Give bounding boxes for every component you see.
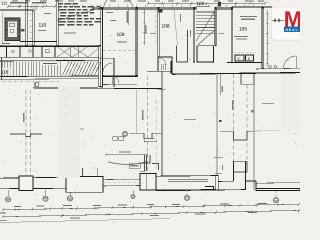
- dashed partition x156 top: [155, 10, 157, 45]
- wall vertical x137: [136, 8, 138, 76]
- left edge line: [1, 12, 3, 45]
- rail gray extension: [254, 130, 281, 132]
- corridor top y58: [99, 57, 114, 59]
- row fixtures: [12, 50, 15, 53]
- room 109 bottom wall: [103, 75, 137, 76]
- logo card: [272, 7, 306, 40]
- hanging lines above block: [82, 168, 84, 177]
- boxes left of landing: [176, 46, 178, 63]
- dashed line x233: [233, 74, 235, 161]
- stair right wall: [215, 8, 216, 46]
- rotated level text left: [23, 113, 24, 122]
- legend text block: [58, 3, 63, 5]
- tiny marks row y33: [150, 33, 156, 34]
- wall vertical x100 band end: [99, 46, 101, 87]
- band left edge line: [1, 58, 3, 80]
- column E: [186, 190, 188, 195]
- wall vertical x102: [101, 8, 103, 87]
- wall vertical x162: [161, 71, 163, 176]
- wall vertical x232: [231, 8, 233, 63]
- top strip text smudges: [12, 0, 18, 1]
- dim column x144: [143, 9, 145, 45]
- bottom wall lower line left: [0, 188, 19, 190]
- bay rect right: [234, 161, 246, 181]
- bottom step left piece: [205, 187, 246, 191]
- lower pocket right: [234, 161, 248, 172]
- ramp band top line: [0, 59, 99, 62]
- big room block: [66, 177, 103, 193]
- room 109 upper marks: [106, 12, 113, 13]
- dim column x267: [266, 10, 268, 66]
- wall horizontal y41.5: [20, 41, 57, 43]
- svg-text:111: 111: [1, 1, 8, 6]
- legend strike diagonal: [56, 7, 103, 21]
- bottom wall top line left: [0, 177, 66, 178]
- column F: [275, 191, 277, 197]
- door arc top corridor A: [104, 0, 117, 9]
- small circle symbol: [33, 6, 37, 10]
- dashed column line x156: [155, 100, 157, 188]
- WC door arc: [159, 58, 166, 65]
- stair left wall: [193, 8, 195, 62]
- dashed pair x26: [25, 90, 27, 176]
- WC fixture: [10, 23, 15, 27]
- left datum text: [0, 213, 6, 214]
- void X pattern: [57, 47, 99, 58]
- hatched wall block WC: [0, 18, 26, 41]
- top wall left segment: [0, 9, 33, 11]
- arc label box: [129, 164, 140, 168]
- bracket dim x144-156: [144, 140, 156, 142]
- verticals in void row: [69, 46, 71, 57]
- corridor wall x114: [113, 58, 115, 87]
- scan shade right: [282, 75, 300, 135]
- dimension line top-right: [148, 2, 265, 4]
- dock inner lines: [168, 178, 208, 180]
- dark mark x219: [218, 2, 221, 7]
- stair landing box: [197, 46, 214, 62]
- small rooms row verticals: [6, 47, 8, 58]
- bottom wall lower line mid: [33, 187, 66, 189]
- step wall right of dock: [218, 180, 233, 182]
- top strip tick row: [9, 5, 11, 7]
- dim text under 109: [117, 42, 127, 43]
- door arc room 109: [112, 76, 119, 83]
- small rooms row bottom wall: [0, 56, 99, 58]
- dimension text cluster top-left: [10, 2, 28, 3]
- dim line vertical x128.5: [128, 9, 130, 25]
- svg-text:110: 110: [39, 23, 47, 29]
- text above 105: [240, 16, 257, 17]
- dim stub x221: [220, 74, 222, 95]
- dim marks near 108: [180, 14, 181, 22]
- door arc right: [284, 56, 297, 69]
- small square on wall: [35, 83, 39, 87]
- rotated level text center: [142, 110, 143, 120]
- svg-text:102: 102: [197, 1, 205, 6]
- step shapes left of dock: [140, 155, 150, 171]
- right low wall double: [256, 189, 300, 191]
- rotated text x233: [232, 100, 233, 110]
- wall vertical x254 lower: [253, 84, 255, 190]
- window opening lines: [103, 178, 140, 181]
- dark box x158: [158, 9, 163, 13]
- corner bracket: [152, 164, 159, 171]
- wall y68.5 right: [256, 67, 300, 70]
- svg-text:108: 108: [162, 24, 170, 30]
- dimension numbers A: [14, 206, 21, 207]
- rail line center: [129, 133, 162, 139]
- label 116: [1, 68, 13, 76]
- kitchen dashed line: [233, 51, 256, 53]
- corridor door arc: [103, 63, 112, 72]
- dimension text 150: [245, 1, 254, 2]
- pier block x140: [140, 174, 156, 191]
- stair diagonal second: [198, 30, 215, 45]
- twin circles on wall: [269, 65, 272, 68]
- dock right pier: [215, 176, 218, 190]
- dashed line room 109: [103, 49, 135, 51]
- wall y71 left of WC: [147, 70, 158, 72]
- top wall right of stair: [215, 7, 232, 9]
- dark tick x220: [219, 120, 222, 122]
- pillar block: [19, 176, 33, 190]
- ramp band hatch: [1, 61, 3, 76]
- dimension tie into logo: [272, 19, 285, 21]
- stair treads: [196, 11, 215, 13]
- top wall far right: [232, 6, 272, 8]
- dock bottom line: [156, 189, 216, 192]
- dock top line: [156, 175, 216, 178]
- dashed column line x147.5: [147, 76, 149, 188]
- tick on x217: [214, 157, 223, 159]
- dashed line x247: [246, 84, 248, 172]
- gray mark: [251, 110, 254, 113]
- rail pocket right: [220, 131, 254, 140]
- svg-text:REAL: REAL: [286, 28, 299, 32]
- wall horizontal y45.8: [0, 45, 99, 46]
- dim tick column x30.5: [30, 13, 32, 15]
- pocket under wall right: [241, 74, 254, 84]
- wall vertical x172 WC right: [171, 57, 173, 74]
- column A: [7, 190, 9, 196]
- ramp band bottom line 1: [0, 75, 99, 78]
- wall y84.5 corridor: [103, 83, 137, 85]
- dimension line top-left: [8, 6, 55, 8]
- K box 2: [246, 55, 254, 61]
- small WC room: [158, 57, 172, 71]
- flat arc door: [108, 162, 146, 165]
- ramp small text: [42, 62, 59, 65]
- wall light x137 lower: [136, 90, 138, 133]
- wall after bay: [246, 180, 257, 182]
- band dim tick row: [2, 80, 4, 82]
- legend small text: [64, 33, 76, 34]
- wall vertical x26.5: [26, 0, 28, 46]
- scan speckle noise: [190, 5, 193, 8]
- wall vertical x263: [262, 8, 264, 69]
- svg-text:116: 116: [1, 70, 9, 75]
- dimension line C partial: [0, 219, 170, 223]
- thin diagonal partition: [174, 10, 178, 45]
- wall y87 long: [33, 87, 162, 90]
- vertical x245 step: [245, 181, 247, 190]
- level text +4.200 b: [262, 103, 274, 104]
- dim line 4250: [106, 154, 147, 156]
- wall vertical x217 lower: [216, 74, 218, 177]
- dimension line B: [3, 210, 299, 216]
- stair diagonal cut: [196, 12, 215, 41]
- wall y62.5 kitchen: [227, 62, 262, 64]
- ticks on bay: [247, 166, 248, 171]
- wall vertical x172 upper: [170, 61, 172, 74]
- door arc top corridor B: [122, 0, 133, 9]
- column B: [45, 190, 47, 196]
- column C: [69, 193, 71, 196]
- main wall y73.5 right half: [172, 73, 300, 75]
- column D small: [132, 191, 134, 195]
- WC fixture hatch: [160, 64, 162, 70]
- logo blue band: [284, 27, 301, 32]
- dimension numbers B: [70, 218, 80, 219]
- ramp band bottom line 2: [0, 78, 99, 81]
- wall vertical x158.5: [158, 8, 160, 57]
- column circle center: [122, 131, 127, 136]
- wall vertical x57.5 room 110 right: [57, 0, 59, 46]
- box labels small: [113, 137, 118, 141]
- dimension line A: [3, 204, 299, 210]
- dashed pair x30: [30, 90, 32, 176]
- right low wall thin: [256, 182, 300, 185]
- svg-text:105: 105: [239, 27, 247, 33]
- text below 105: [234, 36, 248, 37]
- wall vertical x33.5: [33, 11, 34, 46]
- top wall center: [93, 7, 196, 9]
- scan shade band: [58, 86, 80, 178]
- K box 1: [235, 55, 244, 61]
- dimension text 405: [138, 1, 146, 2]
- misc marks left: [21, 29, 25, 32]
- vertical x256 step: [255, 181, 257, 189]
- rail line left: [10, 134, 42, 137]
- room 110 inner marks: [38, 30, 46, 31]
- level text +4.200 a: [184, 119, 196, 120]
